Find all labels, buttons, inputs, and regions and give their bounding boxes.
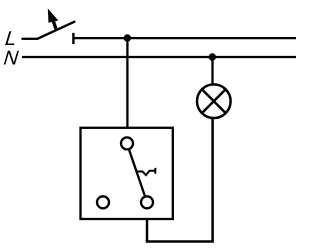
wire: L line [73,37,296,39]
svg-text:N: N [3,48,20,70]
switch S1 contact bar [72,33,74,44]
wire: drop from N to lamp [211,57,213,85]
wire: L stub into switch [22,38,38,40]
switch box (insert) [81,128,173,219]
wire: drop from L to switch box [126,38,128,128]
switch lever [129,149,145,197]
wire: bottom run [146,240,214,243]
wire: N line [22,56,296,58]
wire: lamp down [211,118,214,242]
actuation arrow [48,9,59,30]
terminal: output (bottom-right) [141,196,153,208]
lamp E1 [197,84,231,118]
junction on L [124,34,131,41]
wire: box output drop [146,219,149,242]
spring detail on lever [137,168,156,175]
switch S1 blade [37,21,76,39]
terminal: input (top) [121,137,133,149]
terminal: unused (bottom-left) [97,196,109,208]
junction on N [209,53,216,60]
